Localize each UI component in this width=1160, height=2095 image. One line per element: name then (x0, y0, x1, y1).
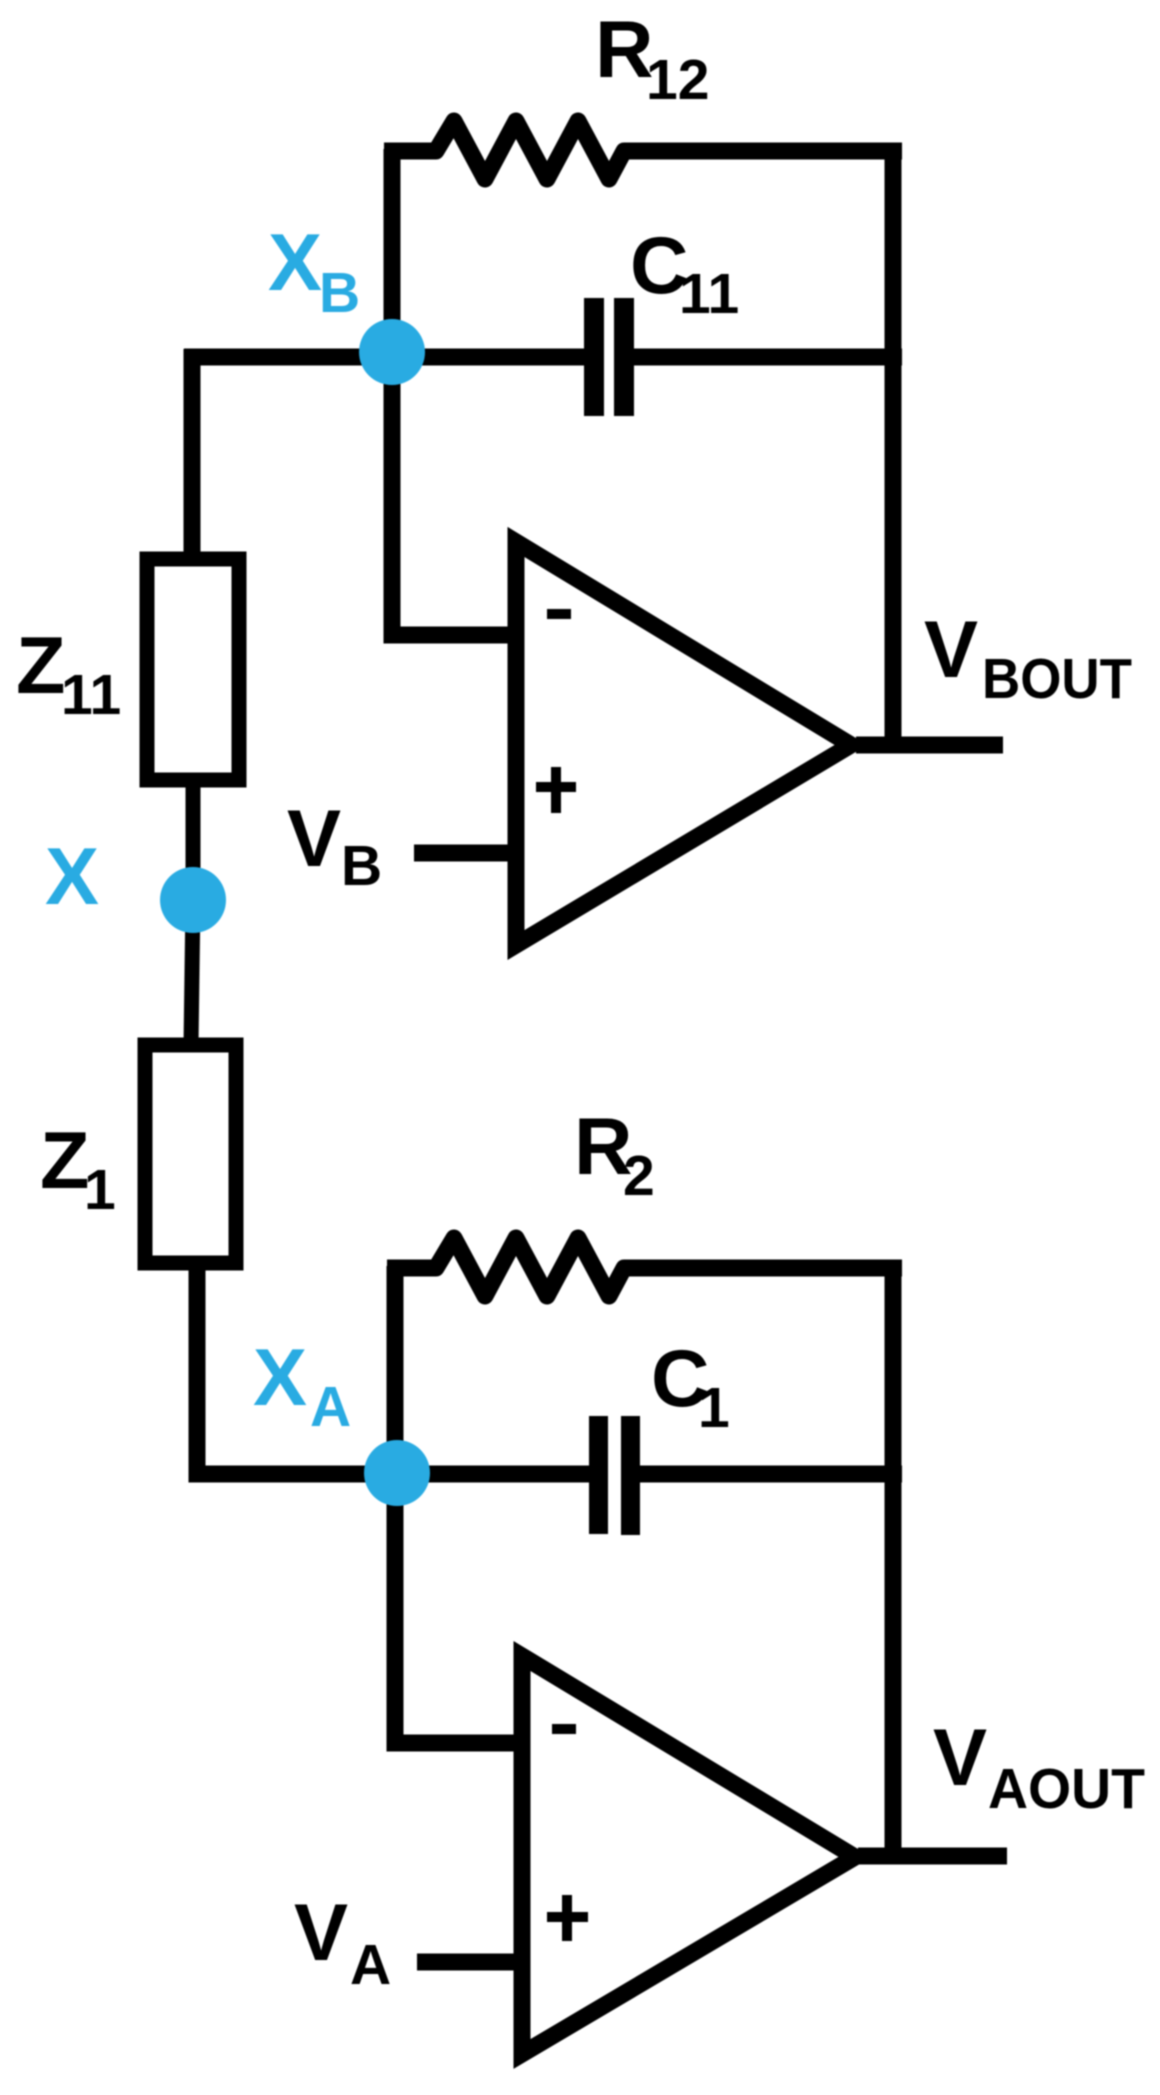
svg-text:Z: Z (40, 1116, 89, 1206)
svg-text:A: A (310, 1375, 351, 1439)
svg-text:1: 1 (698, 1376, 730, 1440)
svg-text:AOUT: AOUT (988, 1757, 1145, 1821)
svg-text:V: V (933, 1713, 987, 1803)
svg-text:B: B (341, 834, 382, 898)
svg-text:A: A (350, 1933, 391, 1997)
svg-text:BOUT: BOUT (982, 647, 1132, 711)
svg-text:X: X (45, 832, 99, 922)
svg-text:V: V (287, 794, 341, 884)
svg-text:2: 2 (623, 1144, 655, 1208)
svg-text:R: R (595, 5, 654, 95)
svg-text:B: B (319, 261, 360, 325)
svg-text:X: X (268, 218, 322, 308)
svg-text:V: V (924, 605, 978, 695)
svg-text:11: 11 (61, 663, 121, 727)
svg-text:X: X (253, 1333, 307, 1423)
svg-text:12: 12 (646, 48, 709, 112)
svg-text:1: 1 (84, 1158, 116, 1222)
svg-text:Z: Z (16, 621, 65, 711)
svg-text:V: V (294, 1888, 348, 1978)
svg-text:11: 11 (679, 262, 739, 326)
